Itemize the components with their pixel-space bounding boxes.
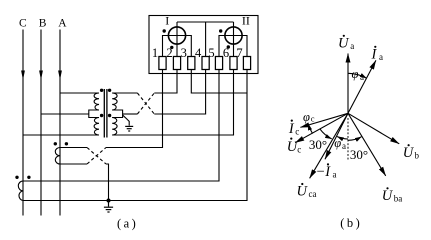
PT ground [125,126,133,131]
wire crossover to terminal 1 [106,70,163,148]
wire common return CT2 bottom to terminal 7 [23,70,247,201]
terminal 2 [173,57,180,70]
wattmeter I polarity dot current [163,29,166,32]
transformer PT primary winding upper [94,93,99,110]
svg-text:ba: ba [394,193,403,203]
crossover X1 diagonal b [137,93,154,114]
phase line B [39,30,43,216]
wire crossover to terminal 2 [154,70,177,94]
svg-text:a: a [350,41,354,51]
svg-text:a: a [333,170,337,180]
svg-text:I: I [288,121,295,137]
angle arc phi-c [308,124,312,134]
svg-text:6: 6 [223,46,229,60]
wire crossover to ground node [106,164,109,201]
phasor Uca [310,113,348,178]
svg-text:a: a [360,72,364,82]
CT1 winding on phase A [55,148,60,165]
svg-text:U: U [382,188,394,204]
svg-text:I: I [371,47,378,63]
label Ub [403,144,420,161]
CT2 winding on phase C [18,181,23,201]
phasor Ua [347,54,349,114]
svg-text:c: c [297,145,301,155]
wattmeter I current coil wire [163,36,192,58]
angle arc 30 left [320,129,332,139]
voltage bus wire between meters [177,21,234,23]
wire CT1 top lead [60,147,87,149]
label minus Ia [316,163,337,180]
phase line A [58,30,62,216]
CT2 polarity dot left [15,176,18,179]
wattmeter II voltage coil wire [233,22,235,57]
wire CT2 top lead to terminal 5 [23,70,219,182]
svg-text:3: 3 [181,46,187,60]
wattmeter II polarity dot voltage [227,45,230,48]
svg-text:U: U [297,184,309,200]
PT secondary series jog [112,110,122,118]
wire bus to terminal 4 [205,22,207,57]
svg-text:U: U [403,145,415,161]
ground main [104,201,113,213]
svg-text:II: II [242,14,250,28]
label Uc [287,138,302,156]
svg-text:7: 7 [236,46,242,60]
PT polarity dot secondary top [108,89,111,92]
CT2 polarity dot right [27,176,30,179]
terminal 3 [188,57,195,70]
wattmeter II polarity dot current [219,29,222,32]
terminal 5 [215,57,222,70]
svg-text:φ: φ [303,110,310,124]
PT polarity dot primary mid [100,114,103,117]
crossover X2 diagonal a [87,148,106,165]
label phi-c [303,110,315,124]
angle arc phi-a lower [337,137,348,140]
terminal 1 [159,57,166,70]
svg-text:ca: ca [309,189,317,199]
PT ground wire [123,115,130,126]
svg-text:2: 2 [166,46,172,60]
crossover X1 diagonal a [137,93,154,114]
svg-text:−I: −I [316,164,332,180]
wire terminal 3 to terminal 7 [191,70,247,94]
wire PT secondary bottom to terminal 6 [112,70,233,136]
svg-text:C: C [19,18,27,30]
angle arc 30 right [348,137,362,141]
PT primary series jog [89,110,99,118]
label Ua [338,35,354,52]
terminal 7 [243,57,250,70]
svg-text:( a ): ( a ) [117,217,136,231]
angle arc phi-a upper [348,73,367,78]
svg-text:c: c [295,127,299,137]
wattmeter II current coil wire [219,36,247,58]
PT core [104,89,107,138]
wattmeter I [168,27,185,44]
phasor Uc [295,113,348,142]
label Ic [288,120,299,138]
wattmeter I voltage coil wire [176,22,178,57]
wire C to PT primary bottom [23,134,99,136]
wire B to PT primary mid junction [41,113,89,115]
svg-text:5: 5 [208,46,214,60]
svg-text:4: 4 [195,46,202,60]
wire crossover to terminal 4 [154,70,205,115]
terminal 4 [202,57,209,70]
crossover X2 diagonal b [87,148,106,165]
phasor Uba [348,113,386,176]
CT1 polarity dot left [54,142,57,145]
phasor Ia [348,60,376,113]
PT polarity dot secondary mid [108,114,111,117]
svg-text:30°: 30° [309,137,327,152]
reference dashed line minus Ua [347,118,349,161]
transformer PT secondary winding lower [112,118,117,136]
svg-text:φ: φ [334,136,341,150]
svg-text:a: a [379,52,383,62]
CT1 polarity dot right [65,142,68,145]
svg-text:c: c [311,114,315,124]
label Uca [297,183,317,200]
phasor Ub [348,113,399,144]
svg-text:1: 1 [152,46,158,60]
PT polarity dot primary top [100,89,103,92]
wire A to PT primary top [60,92,99,94]
svg-text:30°: 30° [350,147,368,162]
transformer PT secondary winding upper [112,93,117,110]
svg-text:I: I [165,14,169,28]
svg-text:( b ): ( b ) [340,216,360,230]
phase line C [21,30,25,216]
svg-text:b: b [415,150,420,160]
wire PT secondary top to crossover [112,92,137,94]
label Uba [382,187,403,204]
wattmeter I polarity dot voltage [170,46,173,49]
wattmeter II [225,27,242,44]
terminal 6 [230,57,237,70]
junction ground node [107,199,111,203]
label phi-a lower [334,136,346,151]
phasor minus Ia [325,113,348,159]
meter box [149,16,258,74]
label phi-a upper [352,67,365,82]
svg-text:φ: φ [352,67,359,81]
label Ia [371,46,384,63]
wire CT1 bottom lead [60,163,87,165]
svg-text:a: a [342,141,346,151]
svg-text:A: A [58,18,67,30]
phasor Ic [300,113,348,127]
svg-text:B: B [39,18,47,30]
wire PT secondary mid to crossover [123,113,138,115]
transformer PT primary winding lower [94,118,99,136]
svg-text:U: U [338,36,350,52]
